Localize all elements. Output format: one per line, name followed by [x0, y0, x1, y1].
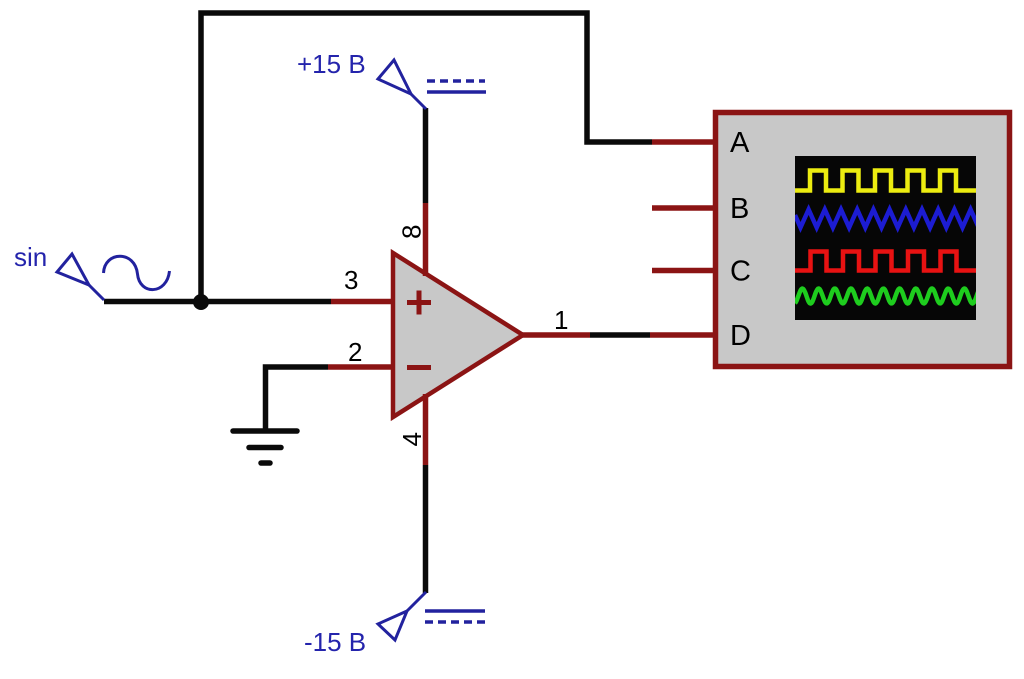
- sin source terminal symbol: [57, 254, 104, 300]
- wire: feedback loop top (junction up, across top, down to scope A, right): [201, 13, 652, 302]
- svg-text:+15 B: +15 B: [297, 49, 366, 79]
- +15V terminal symbol: [378, 60, 426, 109]
- svg-text:4: 4: [397, 432, 427, 446]
- svg-text:8: 8: [397, 225, 427, 239]
- wire: output pin 1 (red-black-red): [521, 332, 590, 338]
- svg-text:-15 B: -15 B: [304, 627, 366, 657]
- sin source sine squiggle: [104, 256, 170, 289]
- svg-text:C: C: [730, 256, 751, 288]
- wire: scope input A red stub: [652, 139, 716, 145]
- waveform channel B blue triangle wave: [795, 210, 979, 228]
- svg-text:1: 1: [554, 305, 568, 335]
- wire: pin 4 red segment: [423, 394, 429, 465]
- ground: [233, 431, 297, 463]
- wire: pin 4 black segment down to -15V supply: [423, 465, 429, 593]
- waveform channel D green sine wave: [795, 289, 978, 304]
- svg-text:sin: sin: [14, 242, 47, 272]
- svg-text:2: 2: [348, 337, 362, 367]
- +15V DC marking (dashed over solid): [427, 79, 485, 83]
- scope screen: [795, 156, 976, 320]
- op-amp plus input marking: [407, 291, 431, 315]
- waveform channel A yellow square wave: [795, 171, 976, 191]
- oscilloscope box: [716, 113, 1010, 367]
- wire: scope input B red stub: [652, 205, 716, 211]
- waveform channel C red square wave: [795, 252, 976, 271]
- op-amp U1 triangle: [393, 253, 523, 417]
- wire: pin 2 red segment: [328, 364, 396, 370]
- svg-text:B: B: [730, 193, 749, 225]
- svg-text:A: A: [730, 127, 750, 159]
- -15V DC marking (solid over dashed): [425, 609, 485, 613]
- node junction dot: [193, 294, 209, 310]
- wire: scope input C red stub: [652, 268, 716, 274]
- wire: pin 3 red segment: [331, 299, 396, 305]
- op-amp minus input marking: [407, 365, 431, 370]
- -15V terminal symbol: [378, 592, 426, 640]
- svg-text:3: 3: [344, 265, 358, 295]
- svg-text:D: D: [730, 320, 751, 352]
- wire: pin 2 black segment with drop to ground: [266, 367, 329, 429]
- wire: sin source to junction to pin3 (black part): [104, 299, 331, 305]
- wire: pin 8 red segment: [423, 203, 429, 276]
- wire: +15V supply down to pin 8 (black part): [423, 108, 429, 203]
